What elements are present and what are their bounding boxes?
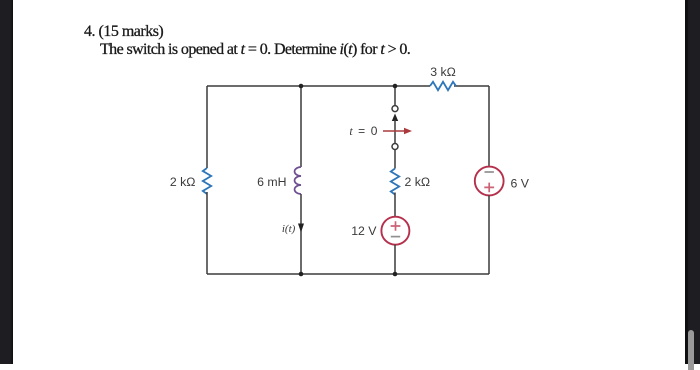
node dot bottom branch2 [299, 272, 304, 277]
resistor R1 2 kΩ (left vertical) [203, 168, 211, 194]
svg-text:t = 0: t = 0 [349, 124, 378, 138]
svg-text:2 kΩ: 2 kΩ [170, 175, 196, 189]
inductor L1 6 mH [295, 167, 301, 194]
voltage source V2 6 V [475, 167, 504, 196]
node dot top branch2 [299, 84, 304, 89]
wire: left, upper segment [206, 86, 208, 168]
wire: branch3 between switch and resistor [394, 150, 396, 169]
left dark viewer bar [0, 0, 13, 364]
svg-text:6 V: 6 V [511, 177, 530, 191]
right dark viewer bar [685, 0, 700, 364]
node dot bottom branch3 [393, 272, 398, 277]
node dot top branch3 [393, 84, 398, 89]
switch arm arrowhead [392, 114, 398, 122]
wire: branch3 bottom stub [394, 245, 396, 274]
wire: branch3 between resistor and source [394, 193, 396, 217]
scrollbar thumb [688, 330, 694, 370]
svg-text:3 kΩ: 3 kΩ [430, 65, 456, 79]
wire: top, right segment [454, 85, 489, 87]
svg-text:6 mH: 6 mH [257, 175, 286, 189]
switch action arrow (red) [383, 130, 405, 132]
wire: right upper [488, 86, 490, 167]
switch lower terminal [392, 144, 398, 150]
wire: left, lower segment [206, 192, 208, 274]
svg-text:2 kΩ: 2 kΩ [405, 175, 431, 189]
voltage source V1 12 V [381, 217, 409, 245]
current arrow i(t) [298, 224, 304, 233]
wire: right lower [488, 195, 490, 274]
problem statement line 2 [100, 41, 410, 59]
wire: branch3 top stub [394, 86, 396, 105]
switch arm line [394, 120, 396, 143]
resistor R2 2 kΩ (middle vertical) [391, 169, 399, 195]
wire: branch2 upper [300, 86, 302, 167]
wire: bottom [207, 273, 489, 275]
resistor R3 3 kΩ (horizontal) [430, 82, 456, 90]
svg-text:i(t): i(t) [282, 223, 296, 235]
switch upper terminal [392, 106, 398, 112]
svg-text:12 V: 12 V [351, 224, 377, 238]
wire: branch2 lower [300, 194, 302, 274]
wire: top, left segment [207, 85, 430, 87]
problem heading line 1 [84, 23, 163, 41]
